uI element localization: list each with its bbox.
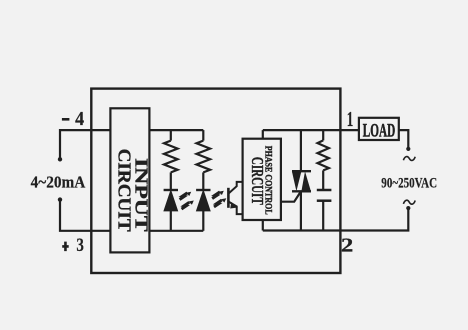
load box <box>359 118 399 140</box>
wire R1 to LED1 <box>170 172 172 190</box>
svg-text:CIRCUIT: CIRCUIT <box>114 149 134 232</box>
LED D2 light arrows to phototransistor <box>212 191 226 207</box>
node AC bottom dot <box>406 206 410 210</box>
label minus sign <box>62 118 70 121</box>
phase control circuit block U2 <box>243 139 281 220</box>
wire phase box top stub to top rail <box>262 130 264 139</box>
wire R1 top stub <box>170 130 172 141</box>
wire top rail right segment to load <box>263 129 359 131</box>
AC tilde top <box>403 157 415 161</box>
svg-text:2: 2 <box>341 235 354 256</box>
svg-text:LOAD: LOAD <box>363 120 395 141</box>
node terminal 4 dot <box>58 157 62 161</box>
node AC top dot <box>406 147 410 151</box>
triac Q2 <box>292 130 311 230</box>
wire bottom rail right segment <box>263 208 409 230</box>
LED D1 <box>164 190 178 211</box>
LED D2 <box>196 190 210 211</box>
wire LED1 to bottom rail <box>170 211 172 231</box>
svg-text:4~20mA: 4~20mA <box>31 173 86 192</box>
SSR outline box <box>91 89 340 273</box>
capacitor C1 snubber <box>317 190 332 231</box>
input circuit block U1 <box>110 108 149 252</box>
wire R2 top stub <box>202 130 204 141</box>
node terminal 3 dot <box>58 197 62 201</box>
wire phase box bottom stub <box>262 220 264 231</box>
svg-text:90~250VAC: 90~250VAC <box>381 176 437 192</box>
wire input top (terminal 4 to input circuit) <box>60 130 110 159</box>
wire triac gate from phase box <box>281 191 301 201</box>
label plus sign <box>62 242 68 252</box>
resistor R3 snubber <box>318 130 329 190</box>
svg-text:1: 1 <box>347 107 354 131</box>
AC tilde bottom <box>403 200 415 204</box>
wire LED2 to bottom rail <box>202 211 204 231</box>
phototransistor Q1 <box>228 182 242 214</box>
svg-text:CIRCUIT: CIRCUIT <box>248 157 267 205</box>
wire R2 to LED2 <box>202 172 204 190</box>
LED D1 light arrows <box>180 192 194 209</box>
wire input bottom (terminal 3 to input circuit) <box>60 200 110 231</box>
resistor R2 <box>197 141 211 173</box>
wire bottom rail left segment <box>149 230 203 232</box>
svg-text:4: 4 <box>75 108 84 130</box>
wire load to AC top terminal <box>399 130 409 149</box>
resistor R1 <box>164 141 178 173</box>
svg-text:3: 3 <box>76 235 84 256</box>
wire top rail left segment <box>149 129 203 131</box>
